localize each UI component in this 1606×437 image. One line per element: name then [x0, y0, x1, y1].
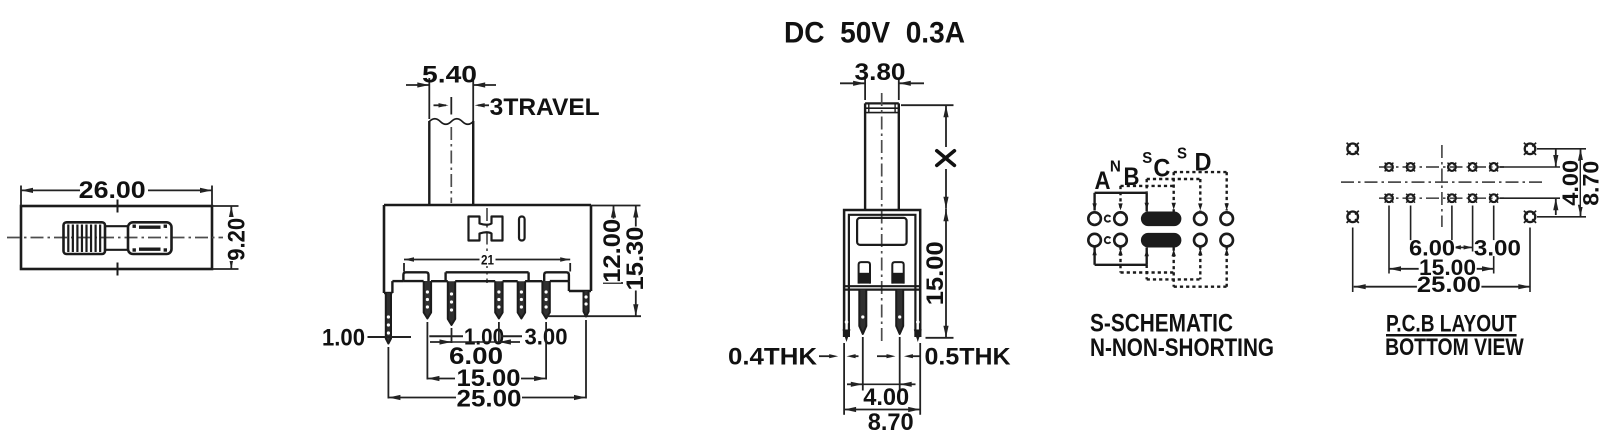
svg-text:26.00: 26.00 — [79, 177, 146, 204]
side view metal cover inner — [849, 215, 916, 337]
svg-text:BOTTOM VIEW: BOTTOM VIEW — [1385, 334, 1524, 361]
pcb mounting hole top-left — [1347, 144, 1358, 155]
svg-text:D: D — [1195, 149, 1212, 177]
top view horizontal centerline — [7, 237, 226, 239]
schematic wire dashed C left to D top — [1147, 178, 1201, 180]
pcb pin holes bottom row — [1385, 194, 1393, 202]
pcb dimension 25.00 — [1354, 286, 1531, 288]
top view knob stem — [105, 225, 128, 227]
dimension 9.20 height — [212, 205, 239, 207]
svg-text:3TRAVEL: 3TRAVEL — [490, 94, 600, 121]
svg-text:9.20: 9.20 — [223, 218, 250, 261]
pcb dimension 4.00 row spacing — [1500, 166, 1560, 168]
pcb pin holes top row — [1385, 163, 1393, 171]
schematic wire dashed B to C right top — [1121, 185, 1174, 187]
dimension 15.30 overall height — [635, 206, 637, 317]
schematic small c contacts — [1105, 216, 1111, 222]
pcb centerline pin row bottom — [1379, 197, 1504, 199]
front view terminal pin 3 — [495, 281, 502, 318]
front view terminal pin 4 — [518, 281, 525, 318]
pcb centerline horizontal main — [1341, 181, 1546, 183]
dimension 3.00 pin spacing — [501, 335, 522, 337]
schematic slider contact bottom — [1141, 233, 1182, 248]
dimension 4.00 pin spacing side — [862, 337, 864, 391]
svg-text:S: S — [1142, 150, 1152, 167]
side view knob shaft — [864, 103, 866, 209]
dimension 8.70 frame width side — [843, 343, 845, 415]
svg-text:3.00: 3.00 — [1474, 236, 1521, 261]
pcb mounting hole bottom-right — [1525, 212, 1536, 223]
side view window — [857, 218, 907, 245]
pcb mounting hole bottom-left — [1347, 212, 1358, 223]
front view left mounting leg — [386, 293, 391, 344]
schematic wire solid A to C left — [1095, 192, 1147, 194]
schematic wire dashed C right to outer bottom — [1174, 286, 1227, 288]
side view contact terminal right — [892, 262, 903, 284]
dimension 6.00 pin pitch — [430, 341, 452, 343]
svg-text:3.80: 3.80 — [855, 59, 906, 86]
dimension 12.00 body height — [591, 205, 641, 207]
top view vertical center tick marks — [117, 200, 119, 213]
top view slider opening — [128, 222, 172, 254]
front view H-shaped cutout — [469, 217, 503, 241]
side view base plate — [844, 285, 920, 287]
pcb mounting hole top-right — [1525, 144, 1536, 155]
svg-text:5.40: 5.40 — [422, 62, 477, 89]
pcb dimension 6.00 and 3.00 — [1452, 245, 1461, 249]
svg-text:1.00: 1.00 — [322, 325, 365, 352]
schematic contact circles row 1 — [1088, 212, 1101, 225]
front view terminal pin 1 — [424, 281, 431, 319]
svg-text:N: N — [1110, 159, 1121, 176]
svg-text:15.30: 15.30 — [622, 227, 649, 291]
side view pin right — [896, 290, 903, 334]
dimension 15.00 side height — [945, 209, 947, 338]
svg-text:0.4THK: 0.4THK — [728, 344, 818, 371]
front view dimension 5.40 knob width — [428, 78, 430, 119]
dimension 26.00 width — [20, 186, 22, 207]
svg-text:25.00: 25.00 — [1417, 272, 1481, 297]
svg-text:0.5THK: 0.5THK — [925, 344, 1012, 371]
schematic stem arrowheads — [1092, 203, 1096, 210]
top view: switch body outline — [21, 206, 212, 269]
pcb centerline pin row top — [1379, 166, 1504, 168]
schematic wire dashed C left to D bottom — [1147, 278, 1201, 280]
side view front frame arm tips — [843, 330, 851, 343]
front view knob centerline and travel tick — [450, 97, 452, 115]
front view center base plate — [446, 271, 529, 273]
svg-text:8.70: 8.70 — [868, 409, 914, 436]
side view pin left — [859, 290, 866, 334]
schematic wire dashed B to C right bottom — [1121, 271, 1174, 273]
svg-text:N-NON-SHORTING: N-NON-SHORTING — [1090, 334, 1274, 362]
schematic contact circles row 2 — [1088, 234, 1101, 247]
svg-text:8.70: 8.70 — [1578, 161, 1603, 206]
schematic slider contact top — [1141, 212, 1182, 227]
svg-text:4.00: 4.00 — [863, 384, 909, 411]
svg-text:A: A — [1095, 167, 1111, 195]
side view metal cover outer — [844, 210, 920, 337]
dimension 3.80 knob thickness — [864, 78, 866, 101]
front view knob shaft with break squiggle — [428, 121, 430, 205]
extension lines from pins — [387, 347, 389, 399]
front view terminal pin 5 — [542, 281, 549, 319]
pcb dimension 15.00 — [1389, 268, 1494, 270]
front view small slot — [519, 217, 525, 241]
top view knob ribbed actuator — [64, 222, 106, 254]
schematic wire dashed C right to outer top — [1174, 171, 1227, 173]
dimension 21 between ears — [403, 263, 405, 272]
svg-text:S: S — [1177, 146, 1187, 163]
svg-text:21: 21 — [481, 252, 494, 268]
svg-text:DC 50V 0.3A: DC 50V 0.3A — [784, 17, 965, 50]
side view contact terminal left — [859, 262, 870, 284]
front view mounting ear left — [403, 272, 428, 281]
front view right mounting leg — [584, 291, 589, 317]
dimension 15.00 pin span — [427, 378, 546, 380]
pcb dimension 8.70 hole row spacing — [1537, 148, 1586, 150]
dimension X knob height — [901, 104, 954, 106]
pcb extension lines bottom — [1388, 206, 1390, 274]
svg-text:15.00: 15.00 — [922, 241, 949, 305]
schematic wire solid A to C left bottom — [1095, 264, 1147, 266]
pcb centerline vertical — [1441, 145, 1443, 227]
front view mounting ear right — [544, 272, 569, 281]
front view terminal pin 2 — [448, 281, 455, 325]
dimension 25.00 leg span — [388, 397, 586, 399]
svg-text:25.00: 25.00 — [457, 386, 522, 413]
dimension 1.00 pin thickness — [429, 335, 463, 337]
front view body outline — [384, 204, 591, 207]
side view centerline — [881, 93, 883, 345]
svg-text:B: B — [1124, 163, 1140, 191]
